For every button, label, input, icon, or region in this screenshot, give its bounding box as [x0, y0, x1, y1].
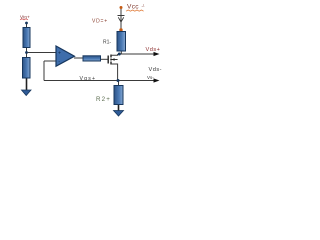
- svg-text:Vs-: Vs-: [147, 75, 154, 80]
- svg-text:VD=+: VD=+: [92, 18, 108, 24]
- svg-text:+: +: [58, 51, 61, 57]
- svg-text:Vds+: Vds+: [146, 47, 161, 53]
- svg-text:Vcc: Vcc: [127, 4, 139, 11]
- svg-text:R2+: R2+: [96, 96, 111, 103]
- svg-text:-¹: -¹: [142, 4, 146, 9]
- svg-text:R1-: R1-: [103, 40, 111, 46]
- svg-text:Vgs+: Vgs+: [80, 76, 97, 82]
- svg-text:Vds-: Vds-: [149, 67, 163, 73]
